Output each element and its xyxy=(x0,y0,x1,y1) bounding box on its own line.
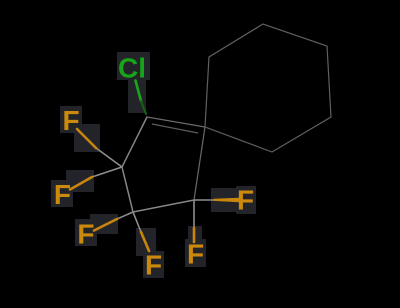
svg-text:F: F xyxy=(62,105,79,136)
svg-text:Cl: Cl xyxy=(118,52,146,83)
svg-text:F: F xyxy=(237,184,254,215)
svg-text:F: F xyxy=(187,239,204,270)
svg-text:F: F xyxy=(145,249,162,280)
svg-text:F: F xyxy=(77,219,94,250)
svg-text:F: F xyxy=(54,179,71,210)
